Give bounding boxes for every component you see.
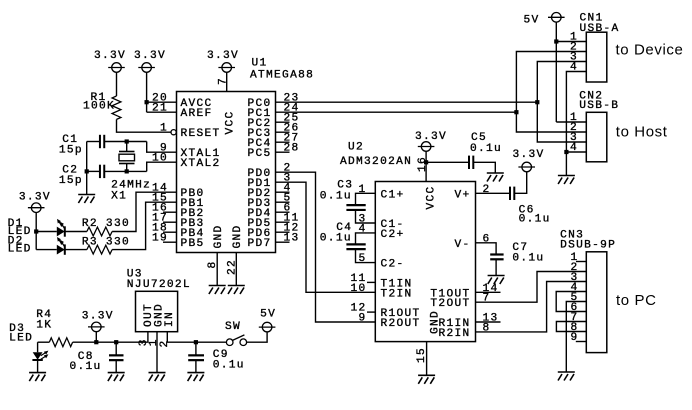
capacitor C3 [356,193,376,205]
connector CN1 USB-A body [586,32,607,82]
svg-text:V+: V+ [454,189,470,201]
connector CN2 USB-B body [586,112,607,162]
svg-text:0.1u: 0.1u [519,214,551,226]
power 3.3V rail 3 symbol [218,63,235,73]
capacitor C2 [100,165,104,178]
ground C5 [487,173,504,182]
svg-text:PC5: PC5 [247,148,271,160]
wire CN3 pins 4-6 strap [556,292,586,312]
node C9 junction [194,340,198,344]
wire 3.3V to R1 [116,72,118,96]
svg-text:9: 9 [358,313,366,325]
ground U1 pin8 [209,286,226,295]
svg-text:3.3V: 3.3V [415,131,447,143]
U2 dead stub R1OUT [367,311,375,313]
wire U3 IN pin [167,332,196,343]
wire U2 GND pin15 [426,342,428,376]
capacitor C6 [476,192,511,194]
power 3.3V rail 2 symbol [138,63,155,73]
capacitor C9 [195,342,197,355]
svg-text:2: 2 [159,339,171,347]
svg-text:VCC: VCC [426,185,438,209]
capacitor C1 [100,135,104,148]
svg-text:15p: 15p [59,175,83,187]
svg-text:10: 10 [350,283,366,295]
svg-text:to PC: to PC [616,292,657,309]
svg-text:R2OUT: R2OUT [381,318,421,330]
resistor R4 [49,338,72,347]
node AVCC junction [145,100,149,104]
svg-text:R2 330: R2 330 [82,218,130,230]
connector CN3 DSUB-9P body [586,252,607,353]
svg-text:X1: X1 [111,191,127,203]
svg-text:PB5: PB5 [181,238,205,250]
svg-text:C2-: C2- [381,259,405,271]
svg-text:5V: 5V [260,309,276,321]
svg-text:GND: GND [430,310,442,334]
svg-text:15p: 15p [59,145,83,157]
U1 right pin stubs PD2-PD7 [276,191,290,193]
resistor R2 [65,231,87,233]
svg-text:GND: GND [232,224,244,248]
wire USB D+ pins 3-3 [537,62,586,143]
svg-text:V-: V- [454,239,470,251]
svg-text:NJU7202L: NJU7202L [127,279,191,291]
capacitor C4 [356,233,376,245]
wire IN rail to switch [196,341,226,343]
power 3.3V LED rail symbol [28,203,45,213]
U2 dead stub T1IN [367,281,375,283]
wire XTAL2 net [104,170,146,172]
regulator U3 NJU7202L body [136,291,178,331]
diode D1 LED [36,231,57,233]
svg-text:0.1u: 0.1u [512,253,544,265]
svg-text:to Device: to Device [616,42,684,59]
node 3.3V rail junction [94,340,98,344]
capacitor C7 [476,243,497,255]
wire R2 to PB0 [112,192,176,231]
U1 GND pin wires [216,253,218,286]
wire R1 to RESET [117,119,172,132]
wire USB D- pins 2-2 [516,52,586,133]
power 3.3V C6 symbol [518,162,535,172]
svg-text:C2+: C2+ [381,229,405,241]
wire PC0 to USB D+ [276,101,538,103]
node D1 junction [34,229,38,233]
U1 left pin stubs PB2-PB5 [163,211,177,213]
ground CN3 [558,372,575,381]
svg-text:USB-B: USB-B [579,100,619,112]
ground crystal caps [78,195,95,204]
svg-text:SW: SW [225,321,241,333]
node VBUS junction [554,39,558,43]
U2 dead stub R1IN [476,321,501,323]
wire 3.3V LED rail [35,212,37,249]
diode D2 LED [36,249,57,251]
svg-text:0.1u: 0.1u [70,361,102,373]
ground U1 pin22 [228,286,245,295]
wire R3 to PB1 [112,202,176,249]
CN3 pin9 stub [576,341,587,343]
power 3.3V rail 1 symbol [108,63,125,73]
svg-text:IN: IN [164,311,176,327]
svg-text:XTAL2: XTAL2 [181,158,221,170]
svg-text:3.3V: 3.3V [19,192,51,204]
svg-text:U1: U1 [252,57,268,69]
capacitor C8 [115,342,117,355]
diode D3 LED [37,342,39,352]
power 3.3V U2 symbol [418,142,435,152]
svg-text:3.3V: 3.3V [513,149,545,161]
wire 3.3V to U1 VCC [226,72,228,91]
ground D3 [29,373,46,382]
svg-text:3.3V: 3.3V [207,50,239,62]
U2 dead stub T1OUT [476,291,501,293]
ground C8 [108,373,125,382]
wire 5V to USB VBUS pins 1-1 [555,22,557,122]
svg-text:0.1u: 0.1u [320,190,352,202]
U1 right pin stubs PC2-PC5 [276,121,290,123]
svg-text:7: 7 [217,77,229,85]
wire main 3.3V rail [38,341,50,343]
node C2 junction [85,169,89,173]
svg-text:R3 330: R3 330 [82,237,130,249]
node D+ junction [535,100,539,104]
wire PD1 to T2IN [276,182,376,292]
svg-text:USB-A: USB-A [580,23,620,35]
power 3.3V output symbol [88,322,105,332]
wire 3.3V to AVCC/AREF [146,72,148,112]
U1 RESET inversion circle [171,130,176,135]
node C8 junction [114,340,118,344]
svg-text:0.1u: 0.1u [320,232,352,244]
ground C9 [187,373,204,382]
wire U3 GND pin [156,332,158,373]
svg-text:AREF: AREF [181,108,213,120]
node XTAL2 junction [125,169,129,173]
svg-text:U2: U2 [348,141,364,153]
power 5V symbol (bottom) [259,322,276,332]
wire U3 OUT pin [147,332,149,343]
wire CN3 pin5 to ground [566,302,586,373]
svg-text:3.3V: 3.3V [82,310,114,322]
node XTAL1 junction [125,139,129,143]
svg-text:GND: GND [213,224,225,248]
svg-text:0.1u: 0.1u [213,360,245,372]
wire 3.3V output drop [95,332,97,343]
svg-text:to Host: to Host [616,123,668,140]
svg-text:C1+: C1+ [381,189,405,201]
svg-text:ADM3202AN: ADM3202AN [340,156,412,168]
svg-text:3.3V: 3.3V [94,50,126,62]
wire XTAL1 net [104,141,146,143]
ground U3 [149,373,166,382]
wire U2 VCC pin16 [425,151,427,181]
op-amp U2 ADM3202AN body [375,182,475,342]
svg-text:T2OUT: T2OUT [430,298,470,310]
resistor R1 [112,96,121,119]
wire PC1 to USB D- [276,111,517,113]
op-amp U1 ATMEGA88 body [177,92,276,253]
wire CN3 pins 7-8 strap [556,322,586,332]
node VCC junction [424,160,428,164]
svg-text:ATMEGA88: ATMEGA88 [250,69,314,81]
node USB GND junction [564,150,568,154]
svg-text:PD7: PD7 [247,238,271,250]
node D- junction [514,110,518,114]
ground C7 [488,276,505,285]
wire T2OUT to CN3 pin2 [476,272,587,303]
crystal X1 [119,151,135,153]
CN3 pin1 stub [576,261,586,263]
svg-text:1K: 1K [36,319,52,331]
svg-text:R2IN: R2IN [438,328,470,340]
svg-text:100K: 100K [83,101,115,113]
wire R2IN to CN3 pin3 [476,282,587,332]
svg-text:9: 9 [570,332,578,344]
capacitor C5 [426,161,469,163]
switch SW [226,339,233,346]
svg-text:VCC: VCC [225,110,237,134]
svg-text:0.1u: 0.1u [470,143,502,155]
power 5V USB symbol [548,12,565,22]
resistor R3 [65,249,87,251]
wire PD0 to R2OUT [276,172,376,322]
svg-text:T2IN: T2IN [381,288,413,300]
wire C1/C2 ground rail [87,141,100,143]
wire switch to 5V [247,332,268,342]
svg-text:24MHz: 24MHz [111,179,151,191]
svg-text:RESET: RESET [181,128,221,140]
wire USB GND pins 4-4 [566,72,586,176]
svg-text:DSUB-9P: DSUB-9P [560,240,616,252]
svg-text:5V: 5V [524,14,540,26]
ground U2 [418,375,435,384]
svg-text:LED: LED [8,244,32,256]
svg-text:3.3V: 3.3V [134,50,166,62]
svg-text:LED: LED [9,332,33,344]
ground USB [558,176,575,185]
